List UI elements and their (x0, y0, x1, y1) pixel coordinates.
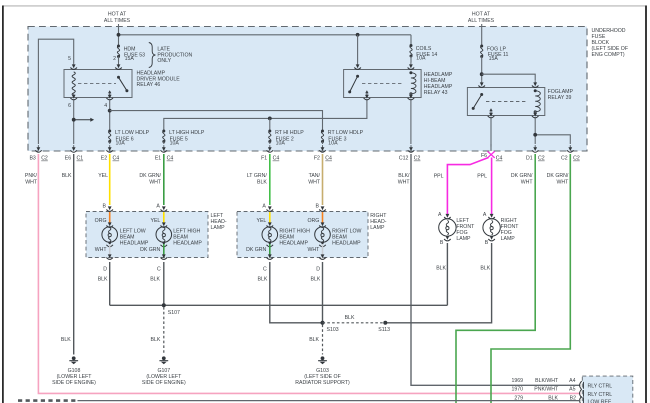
wire 279 BLK low ref (78, 400, 581, 402)
svg-text:C2: C2 (41, 156, 48, 162)
relay 43 pin bottom coil (408, 93, 415, 100)
junction coil branch (533, 133, 537, 137)
svg-text:D1: D1 (526, 156, 533, 162)
relay 39 coil (534, 89, 541, 113)
RLY CTRL connector box (582, 376, 633, 403)
wire pin 6 to E6 (73, 100, 75, 144)
svg-text:1970: 1970 (511, 387, 523, 393)
relay 39 pin bottom coil (532, 111, 539, 118)
svg-text:LT HIGH HDLP: LT HIGH HDLP (169, 130, 205, 136)
svg-text:C2: C2 (414, 156, 421, 162)
wire S103 to S113 (dashed) (323, 315, 386, 323)
relay 39 pin top switch (478, 80, 485, 87)
label LT GRN/BLK (247, 173, 268, 185)
svg-text:B: B (440, 240, 444, 246)
svg-text:RLY CTRL: RLY CTRL (588, 384, 613, 390)
junction pin6 branch (72, 118, 76, 122)
connector F2 C4 (314, 145, 332, 162)
right headlamp pin A (262, 204, 273, 212)
relay U43 HEADLAMP HI-BEAM HEADLAMP RELAY 43 box (344, 70, 453, 98)
svg-text:LT GRN/: LT GRN/ (247, 173, 268, 179)
svg-text:WHT: WHT (95, 247, 108, 253)
svg-text:BLK: BLK (150, 276, 160, 282)
wire BLK left high ground (150, 262, 164, 305)
lamp RIGHT HIGH BEAM HEADLAMP (262, 222, 310, 246)
svg-text:BLK: BLK (98, 276, 108, 282)
svg-text:10A: 10A (276, 140, 286, 146)
svg-text:F1: F1 (261, 156, 267, 162)
svg-text:5: 5 (68, 56, 71, 62)
svg-text:DK GRN: DK GRN (246, 247, 266, 253)
svg-text:BLK: BLK (480, 266, 490, 272)
wire YEL internal (150, 212, 163, 225)
svg-text:A: A (262, 204, 266, 210)
relay 46 contact pin 4 (108, 90, 111, 97)
wire relay 43 coil to C12 (410, 100, 412, 144)
svg-text:RLY CTRL: RLY CTRL (588, 392, 613, 398)
wire 279 dashed continuation (18, 399, 78, 402)
svg-text:LAMP: LAMP (370, 225, 385, 231)
svg-text:SIDE OF ENGINE): SIDE OF ENGINE) (142, 380, 186, 386)
svg-text:DK GRN/: DK GRN/ (547, 173, 569, 179)
svg-text:B: B (103, 204, 107, 210)
wire LT GRN/BLK from F1 (269, 154, 271, 205)
splice S103 (321, 321, 339, 333)
wire DK GRN internal right (246, 244, 270, 257)
left headlamp pin A (156, 204, 167, 212)
fuse LT HIGH HDLP FUSE 5 (162, 130, 205, 147)
wire fog fuse to relay 39 (481, 57, 483, 81)
wire PNK/WHT from B3 around page to RLY CTRL (38, 154, 580, 393)
wire low beam feed to fuse 3 (110, 111, 323, 131)
svg-text:B: B (316, 204, 320, 210)
right headlamp label (370, 213, 387, 231)
wire S107 to G107 (dashed) (150, 307, 163, 355)
svg-text:BLK: BLK (310, 276, 320, 282)
svg-text:10A: 10A (416, 56, 426, 62)
connector F1 C4 (261, 145, 279, 162)
svg-text:WHT: WHT (398, 179, 411, 185)
svg-text:C4: C4 (325, 156, 332, 162)
wire WHT internal (95, 244, 110, 257)
relay U39 FOGLAMP RELAY 39 box (467, 88, 573, 116)
svg-text:HEADLAMP: HEADLAMP (332, 241, 361, 247)
svg-text:ALL TIMES: ALL TIMES (104, 18, 131, 24)
svg-text:S103: S103 (327, 327, 339, 333)
svg-text:4: 4 (104, 103, 107, 109)
svg-text:C: C (263, 266, 267, 272)
svg-text:10A: 10A (170, 140, 180, 146)
wire PPL to right fog lamp (491, 158, 493, 217)
svg-text:BLK: BLK (436, 266, 446, 272)
wire fog feed to coil (482, 74, 536, 80)
junction at HDM fuse tap (117, 33, 121, 37)
relay 46 switch blade (117, 76, 128, 92)
relay 43 pin bottom switch (364, 93, 371, 100)
wire DK GRN internal (140, 244, 164, 257)
svg-text:E1: E1 (155, 156, 161, 162)
svg-text:HEADLAMP: HEADLAMP (120, 241, 149, 247)
splice S113 (378, 321, 390, 333)
late production only brace (149, 43, 193, 68)
label TAN/WHT (308, 173, 321, 185)
svg-text:C2: C2 (538, 156, 545, 162)
relay 43 pin top switch (354, 62, 361, 69)
label DK GRN/WHT (C2) (547, 173, 569, 185)
relay 46 pin 6 (68, 93, 77, 109)
node 1970 PNK/WHT A5 (511, 387, 612, 398)
label DK GRN/WHT (139, 173, 161, 185)
svg-text:C4: C4 (167, 156, 174, 162)
wire BLK right high ground (257, 262, 322, 323)
svg-text:HOT AT: HOT AT (472, 11, 491, 17)
fuse RT LOW HDLP FUSE 3 (321, 130, 364, 147)
wire PPL to left fog lamp (447, 158, 488, 217)
wire top bus to coils fuse (119, 34, 412, 36)
connector C12 C2 (399, 145, 421, 162)
connector F6 C4 (inline) (481, 144, 503, 162)
left headlamp pin C (157, 254, 167, 272)
wire left hot feed down (118, 24, 120, 46)
svg-text:15A: 15A (125, 56, 135, 62)
wire BLK left low ground (98, 262, 110, 305)
svg-text:C4: C4 (273, 156, 280, 162)
svg-text:DK GRN/: DK GRN/ (139, 173, 161, 179)
lamp RIGHT FRONT FOG LAMP (483, 212, 519, 246)
svg-text:WHT: WHT (556, 179, 569, 185)
svg-text:10A: 10A (116, 140, 126, 146)
svg-text:E2: E2 (101, 156, 107, 162)
svg-text:PNK/WHT: PNK/WHT (534, 387, 559, 393)
svg-text:S113: S113 (378, 327, 390, 333)
relay 39 contact (489, 108, 492, 115)
svg-text:BLK: BLK (61, 337, 71, 343)
junction fog feed split (480, 72, 484, 76)
svg-text:BLK: BLK (62, 173, 72, 179)
connector E6 C1 (65, 145, 84, 162)
fuse COILS FUSE 14 10A (410, 35, 438, 63)
svg-text:BLK: BLK (257, 276, 267, 282)
label BLK/WHT (398, 173, 411, 185)
wire pin 4 to low beam fuses (109, 100, 111, 131)
wire relay 39 switch to F6 (490, 118, 492, 147)
svg-text:LAMP: LAMP (501, 236, 516, 242)
wire relay 39 coil to D1 and C2 (535, 118, 570, 144)
svg-text:LOW REF: LOW REF (588, 400, 612, 403)
wire DK GRN/WHT from E1 (163, 154, 165, 205)
relay 39 pin bottom switch (488, 111, 495, 118)
svg-text:C2: C2 (561, 156, 568, 162)
svg-text:A5: A5 (569, 387, 575, 393)
lamp LEFT FRONT FOG LAMP (438, 212, 475, 246)
relay 43 linkage (362, 83, 404, 85)
fuse RT HI HDLP FUSE 2 (268, 130, 304, 147)
right headlamp pin B (316, 204, 326, 212)
junction at hi-beam relay tap (356, 33, 360, 37)
junction low beam feed (108, 109, 112, 113)
relay 46 coil (72, 72, 75, 96)
svg-text:WHT: WHT (308, 179, 321, 185)
svg-text:YEL: YEL (256, 218, 266, 224)
connector E2 C4 (101, 145, 120, 162)
svg-text:S107: S107 (168, 310, 180, 316)
ground G108 (52, 337, 96, 386)
svg-text:C4: C4 (113, 156, 120, 162)
ground G103 (295, 356, 350, 385)
svg-text:LAMP: LAMP (211, 225, 226, 231)
relay 43 coil (409, 71, 416, 95)
svg-text:15A: 15A (489, 56, 499, 62)
wire relay 46 pin 5 loop to B3 (38, 39, 73, 144)
right headlamp pin D (316, 254, 326, 272)
wire YEL from E2 (109, 154, 111, 205)
wire BLK left fog ground (436, 243, 447, 305)
svg-text:HEADLAMP: HEADLAMP (424, 84, 453, 90)
svg-text:B: B (485, 240, 489, 246)
svg-text:10A: 10A (328, 140, 338, 146)
connector E1 C4 (155, 145, 174, 162)
wire TAN/WHT from F2 (322, 154, 324, 205)
fuse LT LOW HDLP FUSE 6 (108, 130, 149, 147)
underhood fuse block label (592, 28, 629, 58)
svg-text:RT HI HDLP: RT HI HDLP (275, 130, 304, 136)
svg-text:ALL TIMES: ALL TIMES (468, 18, 495, 24)
page right border (645, 6, 647, 403)
svg-text:BLK: BLK (345, 315, 355, 321)
relay 46 pin 4 (104, 93, 113, 109)
lamp LEFT HIGH BEAM HEADLAMP (156, 222, 202, 246)
svg-text:BLK/: BLK/ (398, 173, 410, 179)
svg-text:A4: A4 (569, 378, 575, 384)
wire BLK right low ground (310, 262, 322, 323)
left headlamp label (211, 213, 227, 231)
svg-text:D: D (103, 266, 107, 272)
svg-text:BLK: BLK (257, 179, 267, 185)
left headlamp pin D (103, 254, 113, 272)
svg-text:A: A (156, 204, 160, 210)
svg-text:PPL: PPL (434, 174, 444, 180)
label BLK (62, 173, 72, 179)
node 1969 BLK/WHT A4 (511, 378, 612, 390)
relay 39 linkage (486, 101, 528, 103)
svg-text:WHT: WHT (521, 179, 534, 185)
svg-text:D: D (316, 266, 320, 272)
wire WHT internal right (307, 244, 322, 257)
page top border (3, 5, 647, 7)
wire S103 to G103 (dashed) (309, 325, 322, 355)
svg-text:RELAY 39: RELAY 39 (548, 95, 572, 101)
svg-text:HEADLAMP: HEADLAMP (279, 241, 308, 247)
svg-text:PNK/: PNK/ (25, 173, 38, 179)
svg-text:ONLY: ONLY (157, 58, 171, 64)
svg-text:6: 6 (68, 103, 71, 109)
relay 46 linkage (78, 83, 116, 85)
svg-text:DK GRN: DK GRN (140, 247, 160, 253)
svg-text:2: 2 (113, 56, 116, 62)
svg-text:B3: B3 (29, 156, 35, 162)
svg-text:RELAY 46: RELAY 46 (137, 82, 161, 88)
wire fuse 2 drop (269, 118, 271, 131)
svg-text:ORG: ORG (307, 218, 319, 224)
svg-text:LAMP: LAMP (456, 236, 471, 242)
splice S107 (162, 303, 180, 316)
svg-text:F2: F2 (314, 156, 320, 162)
label PNK/WHT (25, 173, 38, 185)
svg-text:RADIATOR SUPPORT): RADIATOR SUPPORT) (295, 380, 350, 386)
node HOT AT ALL TIMES (left) (104, 11, 131, 24)
svg-text:HEADLAMP: HEADLAMP (173, 241, 202, 247)
fuse FOG LP FUSE 11 15A (480, 45, 508, 62)
relay U46 HEADLAMP DRIVER MODULE RELAY 46 box (64, 70, 180, 98)
svg-text:TAN/: TAN/ (309, 173, 321, 179)
svg-text:WHT: WHT (149, 179, 162, 185)
svg-text:BLK/WHT: BLK/WHT (535, 378, 559, 384)
lamp RIGHT LOW BEAM HEADLAMP (315, 222, 362, 246)
relay 43 pin top coil (408, 62, 415, 69)
junction fuse 2 tap (268, 117, 272, 121)
wire HDM fuse to relay pin 2 (118, 57, 120, 63)
label PPL left (434, 174, 444, 180)
ground G107 (142, 356, 186, 385)
page left border (2, 6, 4, 403)
svg-text:RT LOW HDLP: RT LOW HDLP (328, 130, 364, 136)
svg-text:1969: 1969 (511, 378, 523, 384)
label YEL (98, 173, 108, 179)
svg-text:C: C (157, 266, 161, 272)
label PPL right (477, 174, 487, 180)
relay 39 pin top coil (532, 80, 539, 87)
svg-text:C4: C4 (496, 156, 503, 162)
node HOT AT ALL TIMES (right) (468, 11, 495, 24)
svg-text:C1: C1 (77, 156, 84, 162)
wire right hot feed (481, 24, 483, 46)
wire BLK/WHT from C12 to RLY CTRL (411, 154, 580, 385)
node 279 BLK B2 (514, 395, 611, 403)
connector C2 C2 (561, 145, 580, 162)
wire ground bus to S107 (110, 304, 448, 306)
wire DK GRN/WHT from D1 to bottom (456, 154, 535, 403)
wire ORG internal (95, 212, 110, 225)
right headlamp box (237, 212, 368, 258)
svg-text:YEL: YEL (98, 173, 108, 179)
wire hi-beam feed to fuses 5 and 2 (164, 100, 367, 131)
right headlamp pin C (263, 254, 273, 272)
svg-text:BLK: BLK (309, 337, 319, 343)
fuse HDM FUSE 53 15A (117, 45, 145, 63)
wire BLK right fog ground (385, 243, 491, 323)
wire branch arrow (74, 118, 94, 122)
left headlamp box (86, 212, 208, 258)
svg-text:C12: C12 (399, 156, 409, 162)
svg-text:WHT: WHT (25, 179, 38, 185)
svg-text:PPL: PPL (477, 174, 487, 180)
svg-text:WHT: WHT (307, 247, 320, 253)
connector D1 C2 (526, 145, 545, 162)
svg-text:LT LOW HDLP: LT LOW HDLP (115, 130, 150, 136)
svg-text:YEL: YEL (150, 218, 160, 224)
svg-text:BLK: BLK (150, 337, 160, 343)
wire DK GRN/WHT from C2 to bottom (491, 154, 570, 403)
wire ORG internal right (307, 212, 322, 225)
relay 43 switch blade (348, 75, 359, 94)
relay 46 pin 2 (113, 56, 122, 69)
connector B3 C2 (29, 145, 48, 162)
svg-text:A: A (438, 212, 442, 218)
relay 39 switch blade (472, 93, 484, 110)
svg-text:HOT AT: HOT AT (108, 11, 127, 17)
svg-text:RELAY 43: RELAY 43 (424, 90, 448, 96)
label DK GRN/WHT (D1) (511, 173, 533, 185)
svg-text:ORG: ORG (95, 218, 107, 224)
wire YEL internal right (256, 212, 269, 225)
svg-text:ENG COMPT): ENG COMPT) (592, 52, 625, 58)
wire hi-beam tap down (357, 35, 359, 63)
lamp LEFT LOW BEAM HEADLAMP (102, 222, 149, 246)
wire BLK from E6 to G108 (73, 154, 75, 355)
svg-text:DK GRN/: DK GRN/ (511, 173, 533, 179)
left headlamp pin B (103, 204, 113, 212)
relay 43 contact (365, 90, 368, 97)
svg-text:A: A (483, 212, 487, 218)
underhood fuse block box (28, 27, 587, 152)
relay 46 pin 5 (68, 56, 77, 69)
svg-text:C2: C2 (573, 156, 580, 162)
svg-text:E6: E6 (65, 156, 71, 162)
svg-text:SIDE OF ENGINE): SIDE OF ENGINE) (52, 380, 96, 386)
